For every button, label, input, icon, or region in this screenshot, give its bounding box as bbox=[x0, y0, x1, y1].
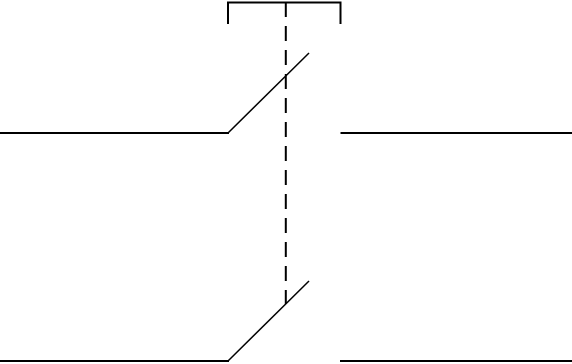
actuator bracket (top tie bar) bbox=[228, 3, 341, 25]
wire: lower-left terminal lead bbox=[0, 360, 229, 362]
wire: upper-right terminal lead bbox=[341, 132, 572, 134]
switch S1b pole 2 (lower) bbox=[0, 281, 572, 361]
wire: lower-right terminal lead bbox=[340, 360, 572, 362]
switch arm (upper blade, open) bbox=[229, 53, 310, 133]
wire: upper-left terminal lead bbox=[0, 132, 229, 134]
switch S1a pole 1 (upper) bbox=[0, 53, 572, 133]
switch arm (lower blade, open) bbox=[229, 281, 310, 361]
mechanical linkage (dashed gang line) bbox=[285, 2, 287, 304]
